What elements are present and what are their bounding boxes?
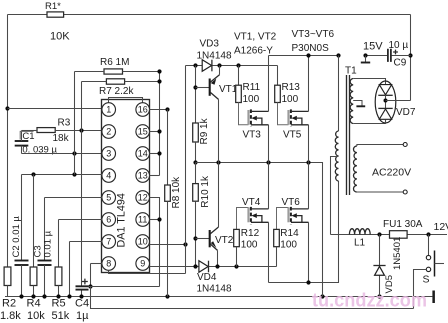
- svg-text:12: 12: [138, 193, 148, 203]
- node VT1 base tap: [193, 85, 197, 89]
- svg-text:11: 11: [138, 215, 147, 225]
- node VT5 drain on drain rail: [306, 53, 310, 57]
- svg-text:10K: 10K: [50, 31, 70, 43]
- wire riser / top rail corner: [410, 15, 412, 101]
- svg-text:1: 1: [106, 105, 111, 115]
- node VT1 emitter on VD3 rail: [217, 63, 221, 67]
- svg-text:R7 2.2k: R7 2.2k: [99, 86, 134, 97]
- svg-text:R11: R11: [243, 82, 261, 93]
- resistor R4 column from pin4 row: [33, 175, 35, 268]
- svg-text:R14: R14: [280, 228, 299, 239]
- svg-text:C2 0.01 µ: C2 0.01 µ: [11, 216, 22, 258]
- wire pin7 row to ground: [70, 241, 103, 243]
- wire C1 bottom to pin3: [22, 153, 103, 155]
- resistor R11: [238, 66, 240, 86]
- wire pin6 row to R5 column: [59, 219, 103, 221]
- resistor R2: [4, 267, 11, 286]
- svg-text:100: 100: [241, 240, 258, 251]
- wire pin8 row: [91, 263, 103, 265]
- wire secondary bottom terminal: [357, 191, 403, 193]
- wire aux top to VD7: [353, 79, 385, 85]
- wire reference column (pins 15,14,13): [159, 72, 161, 176]
- wire gate-drive mid rail: [196, 163, 323, 297]
- pin 13: [136, 169, 150, 183]
- svg-text:9: 9: [140, 259, 145, 269]
- wire right FET stack columns: [308, 56, 310, 283]
- svg-text:R1*: R1*: [45, 1, 61, 12]
- resistor R8 column: [167, 110, 169, 186]
- resistor R6: [104, 69, 123, 74]
- node C4 plus / pin8: [88, 284, 92, 288]
- pin 9: [136, 257, 150, 271]
- node VD3 anode / R9 chain: [193, 63, 197, 67]
- svg-text:100: 100: [280, 240, 297, 251]
- wire VD7 mid to 15V riser: [386, 100, 411, 102]
- svg-text:VD4: VD4: [197, 272, 217, 283]
- svg-text:R9 1k: R9 1k: [199, 117, 210, 144]
- node VD7 center tap output: [384, 99, 388, 103]
- svg-text:R2: R2: [2, 298, 16, 310]
- svg-text:VT1, VT2: VT1, VT2: [234, 32, 277, 43]
- svg-text:1N5401: 1N5401: [392, 237, 403, 270]
- node R10 bottom on output rail: [193, 264, 197, 268]
- node pin1 junction on left column: [5, 106, 9, 110]
- svg-text:10k: 10k: [27, 310, 45, 322]
- wire driver left column: [185, 66, 187, 274]
- pin 6: [102, 213, 116, 227]
- wire pin13 row: [150, 175, 160, 177]
- node VT6 source on source rail: [306, 280, 310, 284]
- svg-text:10 µ: 10 µ: [389, 40, 409, 51]
- wire pin16 row: [150, 109, 168, 111]
- svg-text:VT1: VT1: [219, 84, 238, 95]
- capacitor C9: [388, 49, 391, 62]
- svg-text:15V: 15V: [363, 41, 383, 53]
- wire pin15 row: [150, 131, 160, 133]
- pin 12: [136, 191, 150, 205]
- resistor R10: [195, 163, 197, 184]
- wire pin11 row: [150, 219, 160, 221]
- svg-text:51k: 51k: [52, 310, 70, 322]
- node 15V rail ground stub: [363, 53, 367, 57]
- resistor R3: [37, 128, 55, 133]
- svg-text:18k: 18k: [53, 133, 70, 144]
- resistor R7: [106, 79, 124, 84]
- svg-text:VT5: VT5: [283, 130, 302, 141]
- svg-text:VD7: VD7: [396, 107, 416, 118]
- svg-text:1.8k: 1.8k: [0, 310, 21, 322]
- svg-text:VD3: VD3: [200, 39, 220, 50]
- node 15V rail / riser: [408, 53, 412, 57]
- svg-text:7: 7: [106, 237, 111, 247]
- svg-text:1N4148: 1N4148: [197, 284, 232, 295]
- node R7 column on pin2 wire: [79, 128, 83, 132]
- svg-text:16: 16: [138, 105, 148, 115]
- svg-text:R13: R13: [282, 82, 301, 93]
- diode VD5 1N5401: [379, 235, 381, 297]
- svg-text:L1: L1: [354, 238, 366, 249]
- svg-text:S: S: [423, 274, 430, 286]
- svg-text:A1266-Y: A1266-Y: [234, 46, 273, 57]
- svg-text:R4: R4: [27, 298, 41, 310]
- wire top feedback rail: [8, 14, 411, 16]
- diode pair VD7: [375, 81, 396, 123]
- svg-text:C1: C1: [22, 131, 34, 142]
- svg-text:0.01 µ: 0.01 µ: [43, 230, 54, 257]
- transistor Q VT6: [289, 207, 309, 224]
- transistor Q VT3: [239, 103, 249, 125]
- wire secondary top terminal: [357, 145, 403, 147]
- wire pin1 row: [8, 108, 103, 110]
- wire pin8 bottom stub to pin10 column: [109, 271, 186, 274]
- svg-text:10: 10: [138, 237, 148, 247]
- pin 15: [136, 125, 150, 139]
- svg-text:13: 13: [138, 171, 148, 181]
- wire pin12 supply column: [150, 198, 160, 287]
- wire pin4 row: [22, 174, 103, 176]
- node left FET stack on mid rail: [266, 160, 270, 164]
- diode VD3 1N4148: [202, 60, 211, 72]
- svg-text:R5: R5: [52, 298, 66, 310]
- pin 4: [102, 169, 116, 183]
- wire left FET stack columns: [268, 56, 270, 283]
- battery negative terminal bar: [432, 291, 435, 304]
- node R12 bottom on output rail: [234, 264, 238, 268]
- resistor R8: [165, 185, 171, 201]
- svg-text:T1: T1: [345, 66, 357, 77]
- wire output rail (pin9 / VD4): [150, 266, 277, 268]
- wire drain rail to transformer: [269, 55, 339, 57]
- wire battery positive rail (bottom): [91, 287, 414, 309]
- wire 12V rail: [331, 234, 448, 236]
- pin 16: [136, 103, 150, 117]
- svg-text:R10 1k: R10 1k: [200, 175, 211, 208]
- wire R6-left column to pins 3,4: [74, 72, 76, 175]
- node collector column on mid rail: [216, 160, 220, 164]
- wire 15V rail: [366, 55, 388, 57]
- svg-text:100: 100: [282, 94, 299, 105]
- aux center tap stub: [353, 101, 362, 106]
- pin 3: [102, 147, 116, 161]
- svg-text:P30N0S: P30N0S: [292, 43, 330, 54]
- capacitor C1: [15, 140, 29, 142]
- diode VD4 1N4148: [199, 261, 208, 273]
- resistor R1*: [47, 12, 64, 17]
- node VD5 top on 12V rail: [377, 232, 381, 236]
- switch S: [428, 235, 430, 256]
- node pin10 on driver column: [183, 242, 187, 246]
- svg-text:VT3: VT3: [243, 130, 262, 141]
- pin 2: [102, 125, 116, 139]
- capacitor C3: [38, 260, 52, 262]
- svg-text:DA1 TL494: DA1 TL494: [116, 193, 128, 247]
- wire left feedback column: [7, 15, 9, 268]
- wire C1 to R3 to pin2: [22, 130, 38, 132]
- pin 10: [136, 235, 150, 249]
- pin 7: [102, 235, 116, 249]
- svg-text:4: 4: [106, 171, 111, 181]
- svg-text:VT2: VT2: [215, 235, 234, 246]
- svg-text:FU1 30A: FU1 30A: [383, 219, 423, 230]
- transistor Q VT4: [249, 207, 269, 224]
- resistor R5: [55, 267, 62, 286]
- resistor R13: [277, 66, 279, 86]
- primary center tap to 12V rail: [331, 157, 339, 235]
- pin 14: [136, 147, 150, 161]
- svg-text:14: 14: [138, 149, 148, 159]
- resistor R14: [277, 208, 289, 230]
- pin 11: [136, 213, 150, 227]
- svg-text:8: 8: [106, 259, 111, 269]
- wire pin10 row to driver column: [150, 244, 186, 246]
- transformer T1 primary winding: [338, 56, 340, 132]
- wire VD3 rail: [186, 65, 278, 67]
- resistor R9: [193, 123, 199, 142]
- svg-text:tu.cndzz.com: tu.cndzz.com: [312, 290, 427, 312]
- svg-text:2: 2: [106, 127, 111, 137]
- op-amp U1 DA1 TL494 body: [102, 100, 150, 273]
- transistor Q VT5: [278, 103, 289, 125]
- wire source rail to primary bottom: [269, 181, 339, 283]
- transistor Q VT2: [196, 238, 210, 240]
- transistor Q VT1: [196, 87, 210, 89]
- svg-text:C4: C4: [75, 298, 89, 310]
- wire pin14 row: [150, 153, 160, 155]
- svg-text:1µ: 1µ: [76, 310, 89, 322]
- wire VT1/VT2 collector column: [218, 99, 220, 227]
- fuse FU1: [390, 231, 408, 239]
- svg-text:VT3~VT6: VT3~VT6: [292, 29, 335, 40]
- svg-text:3: 3: [106, 149, 111, 159]
- svg-text:R6 1M: R6 1M: [100, 57, 129, 68]
- svg-text:12V: 12V: [434, 221, 448, 233]
- capacitor C2: [15, 260, 29, 262]
- svg-text:R3: R3: [58, 118, 71, 129]
- capacitor C4 electrolytic: [76, 285, 89, 287]
- node R11 top on VD3 rail: [236, 63, 240, 67]
- wire pin5 row to C3: [45, 197, 103, 199]
- pin 1: [102, 103, 116, 117]
- transformer T1 aux winding: [350, 79, 353, 124]
- node VD4 cathode / VT2 emitter: [215, 264, 219, 268]
- svg-text:AC220V: AC220V: [372, 167, 411, 179]
- wire pin1-pin16 bridge: [109, 98, 143, 105]
- wire R7-left column down to C4: [81, 82, 83, 287]
- resistor R12: [237, 208, 249, 230]
- svg-text:VT4: VT4: [242, 197, 261, 208]
- transformer T1 secondary winding: [353, 146, 356, 192]
- svg-text:15: 15: [138, 127, 148, 137]
- svg-text:100: 100: [243, 94, 260, 105]
- node switch column on 12V rail: [426, 232, 430, 236]
- pin 8: [102, 257, 116, 271]
- node right FET stack on mid rail: [306, 160, 310, 164]
- node VT2 base tap: [193, 236, 197, 240]
- wire R9/R10 chain column: [195, 66, 197, 124]
- node primary top corner: [336, 53, 340, 57]
- svg-text:VT6: VT6: [282, 197, 301, 208]
- node R6 column on pin3 row: [72, 151, 76, 155]
- svg-text:6: 6: [106, 215, 111, 225]
- wire C4 net to supply column: [89, 286, 160, 288]
- svg-text:C9: C9: [394, 58, 407, 69]
- node R9/R10 junction: [193, 160, 197, 164]
- pin 5: [102, 191, 116, 205]
- ground stub at 15V: [365, 56, 367, 62]
- wire C2 column: [21, 175, 23, 261]
- inductor L1: [349, 229, 370, 235]
- wire switch to battery rail: [414, 270, 427, 309]
- wire aux bottom to VD7: [353, 120, 385, 124]
- svg-text:1N4148: 1N4148: [197, 51, 232, 62]
- svg-text:R12: R12: [241, 228, 260, 239]
- svg-text:R8 10k: R8 10k: [171, 176, 182, 209]
- svg-text:5: 5: [106, 193, 111, 203]
- transformer T1 core: [347, 75, 350, 195]
- resistor R4: [30, 267, 37, 286]
- wire ground rail: [5, 296, 432, 298]
